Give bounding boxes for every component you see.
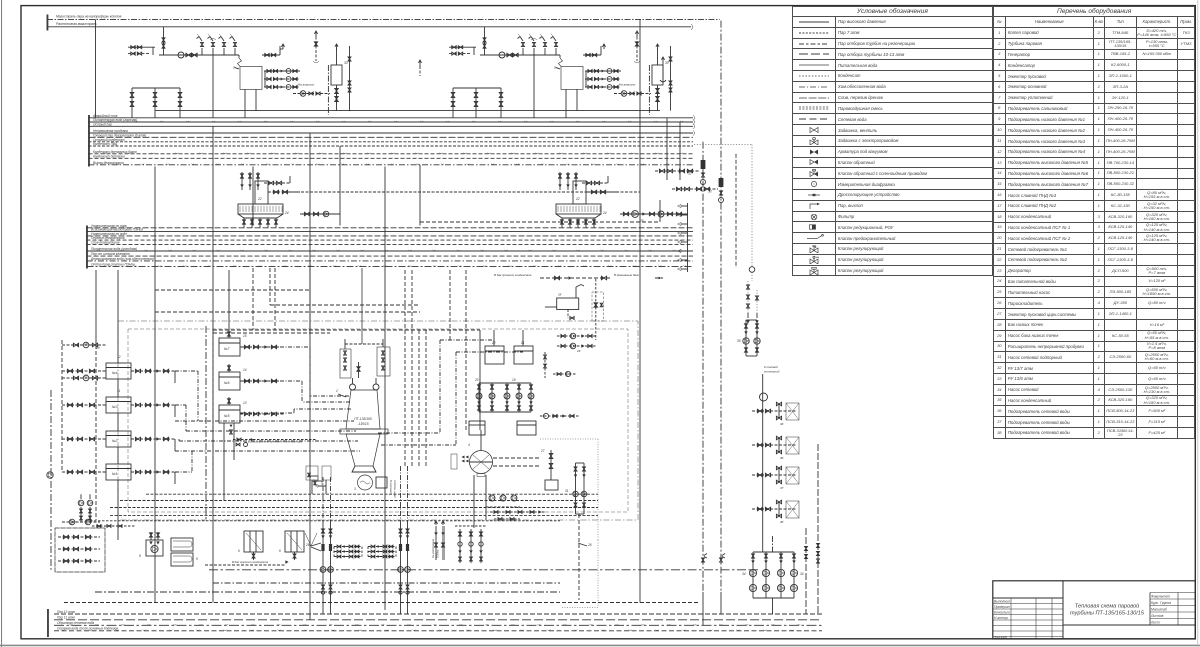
svg-text:Листов: Листов	[1150, 614, 1164, 618]
svg-text:Курс. Группа: Курс. Группа	[1151, 601, 1171, 605]
svg-text:Консульт.: Консульт.	[994, 611, 1011, 615]
svg-text:Проверил: Проверил	[994, 605, 1010, 609]
svg-text:Факультет: Факультет	[1151, 595, 1170, 599]
svg-text:Масштаб: Масштаб	[1151, 608, 1167, 612]
svg-text:Тепловая схема паровой: Тепловая схема паровой	[1075, 603, 1140, 610]
svg-text:Выполнил: Выполнил	[994, 600, 1010, 604]
svg-text:турбины ПТ-135/165-130/15: турбины ПТ-135/165-130/15	[1070, 611, 1145, 617]
svg-text:Лист: Лист	[1150, 621, 1160, 625]
svg-text:Зав.каф.: Зав.каф.	[994, 635, 1008, 639]
svg-text:Н-контр.: Н-контр.	[994, 616, 1009, 620]
